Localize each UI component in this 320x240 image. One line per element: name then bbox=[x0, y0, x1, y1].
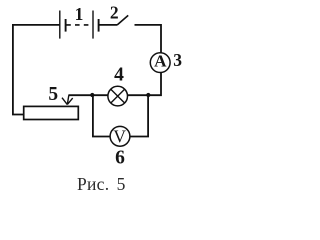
lamp 4 : cross bbox=[111, 89, 125, 103]
wire dashed link between cells bbox=[66, 24, 92, 26]
switch 2 : blade bbox=[117, 15, 128, 25]
battery 1 : cell 2 long plate bbox=[92, 11, 94, 39]
svg-text:A: A bbox=[154, 52, 167, 71]
ammeter 3 : circle bbox=[150, 53, 170, 73]
rheostat 5 : body rectangle bbox=[24, 106, 79, 119]
svg-text:6: 6 bbox=[115, 148, 125, 169]
wire ammeter down to corner and left to lamp bbox=[128, 72, 161, 95]
wire switch to top-right corner down to ammeter bbox=[135, 25, 162, 53]
wire voltmeter branch left bbox=[93, 95, 110, 136]
svg-text:4: 4 bbox=[114, 65, 124, 86]
wire lamp left to rheostat wiper corner bbox=[68, 94, 108, 96]
lamp 4 : circle bbox=[108, 86, 128, 106]
battery 1 : cell 2 short plate bbox=[98, 19, 100, 32]
battery 1 : cell 1 long plate bbox=[59, 11, 61, 39]
svg-text:1: 1 bbox=[75, 4, 84, 24]
wire battery to switch bbox=[99, 24, 118, 26]
voltmeter 6 : circle bbox=[110, 126, 130, 146]
svg-text:2: 2 bbox=[110, 2, 119, 22]
svg-text:V: V bbox=[113, 126, 126, 146]
node junction right (dot) bbox=[146, 93, 150, 97]
rheostat 5 : wiper arrow bbox=[62, 95, 73, 104]
wire voltmeter branch right bbox=[130, 95, 148, 136]
svg-text:3: 3 bbox=[173, 50, 182, 70]
svg-text:Рис. 5: Рис. 5 bbox=[77, 174, 126, 194]
wire top-left + left side into rheostat bbox=[13, 25, 60, 115]
svg-text:5: 5 bbox=[48, 84, 58, 105]
node junction left (dot) bbox=[90, 93, 94, 97]
battery 1 : cell 1 short plate bbox=[65, 19, 67, 32]
